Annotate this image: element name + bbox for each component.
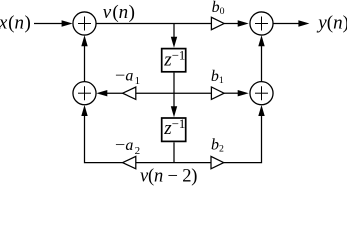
adder A3 [73,82,96,105]
svg-text:−1: −1 [172,48,186,62]
wire middle row rightward to b1 [174,92,211,94]
amplifier triangle -a2 [123,156,136,168]
amplifier triangle b2 [211,156,224,168]
wire b2 to right column up to A4 [224,112,262,163]
delay box U2 z^-1 [162,118,186,141]
adder A2 [250,12,273,35]
wire A1 to b0 [96,23,211,25]
arrowhead output [298,20,309,26]
delay box U1 z^-1 [162,49,186,72]
arrowhead into adder A4 [238,90,249,96]
amplifier triangle b1 [211,87,224,99]
svg-text:v(n): v(n) [103,2,135,23]
wire U2 down to bottom row [173,142,175,162]
amplifier triangle -a1 [123,87,136,99]
wire -a1 to A3 [105,92,123,94]
arrowhead into A2 bottom [258,35,264,46]
arrowhead into adder A1 [62,20,73,26]
wire branch down from v(n) node [173,24,175,41]
arrowhead into delay box U2 [171,106,177,117]
adder A1 [73,12,96,35]
wire A2 to output [273,23,303,25]
svg-text:x(n): x(n) [0,13,31,34]
arrowhead into adder A2 [238,20,249,26]
wire b1 to A4 [224,92,240,94]
svg-text:y(n): y(n) [316,13,347,34]
wire bottom row rightward to b2 [174,162,211,164]
arrowhead into A3 bottom [81,105,87,116]
svg-text:v(n − 2): v(n − 2) [140,167,197,187]
wire U1 down through node to U2 [173,73,175,110]
arrowhead into A4 bottom [258,105,264,116]
arrowhead into A1 bottom [81,35,87,46]
wire bottom row leftward to -a2 [136,162,174,164]
wire A3 up to A1 [84,42,86,81]
wire middle row leftward to -a1 [136,92,174,94]
arrowhead into delay box U1 [171,37,177,48]
wire input [34,23,66,25]
wire A4 up to A2 [261,42,263,81]
svg-text:−1: −1 [172,117,186,131]
arrowhead into adder A3 [96,90,107,96]
wire b0 to A2 [224,23,240,25]
wire -a2 to left column [85,112,123,163]
adder A4 [250,82,273,105]
amplifier triangle b0 [211,17,224,29]
